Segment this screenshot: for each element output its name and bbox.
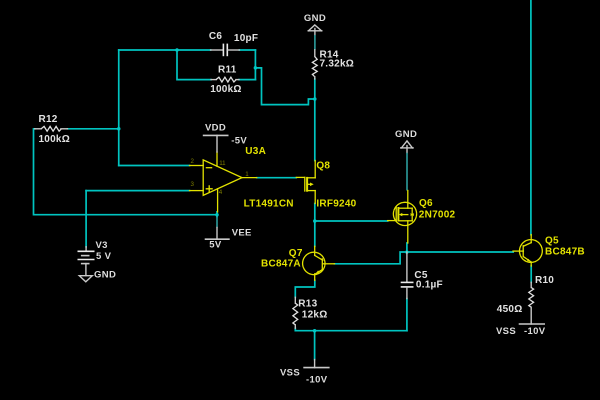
VEE rail [205, 227, 252, 250]
wire Q8 drain to Q6 gate [315, 220, 388, 222]
transistor Q7 BC847A [261, 246, 335, 280]
svg-text:2: 2 [191, 158, 195, 165]
svg-text:C6: C6 [209, 31, 222, 42]
svg-text:VSS: VSS [496, 326, 516, 337]
wire R14 bottom to Q8 source [314, 79, 316, 161]
svg-text:VSS: VSS [280, 368, 300, 379]
svg-text:Q5: Q5 [545, 235, 559, 246]
svg-text:R11: R11 [218, 64, 237, 75]
capacitor C5 [401, 252, 443, 299]
wire Q8 drain down to Q7 collector [314, 204, 316, 247]
svg-text:BC847A: BC847A [261, 259, 301, 270]
node junction C6/R11 right jog [254, 66, 258, 70]
svg-text:R10: R10 [535, 275, 554, 286]
wire R11 right [239, 79, 255, 81]
resistor R12 [35, 114, 70, 145]
ground GND top (on-page connector) [304, 13, 326, 50]
wire Q7 base to Q5 base [335, 252, 514, 264]
transistor Q6 2N7002 [388, 191, 456, 244]
wire R12 right to node [68, 128, 119, 130]
svg-text:Q6: Q6 [419, 198, 433, 209]
svg-text:Q8: Q8 [316, 160, 330, 171]
node junction Q8 drain/Q6 gate [313, 219, 317, 223]
node junction feedback/R14/Q8 source [313, 97, 317, 101]
wire C5 bottom to R13 row [406, 299, 408, 331]
svg-text:1: 1 [245, 171, 249, 178]
svg-text:VDD: VDD [205, 123, 226, 134]
resistor R14 [312, 50, 354, 80]
wire Q7 emitter to R13 [295, 280, 315, 297]
battery V3 [78, 240, 112, 276]
transistor Q8 IRF9240 [296, 160, 356, 209]
svg-text:Q7: Q7 [289, 248, 303, 259]
wire VEE drop [216, 212, 218, 217]
wire left vertical (C6 node down to pin2) [118, 50, 120, 166]
wire drop to R11 left [177, 50, 211, 80]
svg-text:100kΩ: 100kΩ [210, 84, 242, 95]
svg-text:LT1491CN: LT1491CN [244, 199, 294, 210]
resistor R11 [210, 64, 242, 95]
wire VSS stem mid [314, 331, 316, 360]
svg-text:0.1µF: 0.1µF [416, 280, 443, 291]
wire R12 left around to VEE node [34, 129, 218, 215]
svg-text:GND: GND [304, 13, 326, 24]
wire Q6 source to junction [406, 243, 408, 252]
power VSS mid [280, 360, 330, 386]
svg-text:R12: R12 [39, 114, 58, 125]
ground GND mid (on-page connector) [395, 129, 417, 191]
node junction VEE/R12/pin4 [215, 213, 219, 217]
resistor R10 [497, 275, 554, 324]
wire feedback top row left (to C6) [119, 49, 211, 51]
node A junction R12/feedback [117, 127, 121, 131]
svg-text:12kΩ: 12kΩ [302, 310, 328, 321]
svg-text:U3A: U3A [245, 146, 266, 157]
svg-text:GND: GND [94, 270, 116, 281]
svg-text:R13: R13 [298, 298, 317, 309]
svg-text:V3: V3 [96, 240, 108, 251]
svg-text:100kΩ: 100kΩ [39, 134, 71, 145]
wire R13 bottom row [295, 328, 407, 331]
wire C6 right [239, 49, 255, 51]
resistor R13 [293, 297, 328, 328]
wire top long vertical to Q5 collector [530, 0, 532, 235]
power VSS right [496, 324, 546, 337]
svg-text:7.32kΩ: 7.32kΩ [320, 59, 355, 70]
wire Q5 emitter to R10 [530, 266, 532, 282]
node junction R13/C5/VSS [313, 329, 317, 333]
svg-text:-5V: -5V [231, 136, 247, 147]
VDD rail [203, 123, 248, 153]
op-amp U3A LT1491CN [190, 146, 294, 212]
svg-text:GND: GND [395, 129, 417, 140]
svg-text:450Ω: 450Ω [497, 304, 523, 315]
wire feedback jog [255, 68, 314, 105]
node junction C6/R11 left [175, 48, 179, 52]
wire op-amp output to Q8 gate [257, 177, 297, 179]
capacitor C6 [209, 31, 258, 56]
svg-text:VEE: VEE [232, 227, 252, 238]
transistor Q5 BC847B [513, 235, 585, 266]
wire V3 top [85, 191, 87, 247]
svg-text:10pF: 10pF [234, 33, 258, 44]
wire right vertical C6-R11 [254, 50, 256, 80]
svg-text:2N7002: 2N7002 [419, 210, 456, 221]
svg-text:BC847B: BC847B [545, 246, 585, 257]
wire pin2 [119, 165, 190, 167]
svg-text:11: 11 [219, 160, 226, 167]
svg-text:-10V: -10V [524, 326, 546, 337]
svg-text:IRF9240: IRF9240 [316, 199, 356, 210]
svg-text:3: 3 [191, 181, 195, 188]
svg-text:4: 4 [219, 189, 223, 196]
wire pin3 [86, 190, 189, 192]
svg-text:5 V: 5 V [96, 251, 112, 262]
ground GND (earth) below V3 [79, 270, 116, 282]
svg-text:5V: 5V [209, 240, 222, 251]
node junction Q6 source/Q5 base/C5 [405, 250, 409, 254]
svg-text:-10V: -10V [306, 375, 328, 386]
